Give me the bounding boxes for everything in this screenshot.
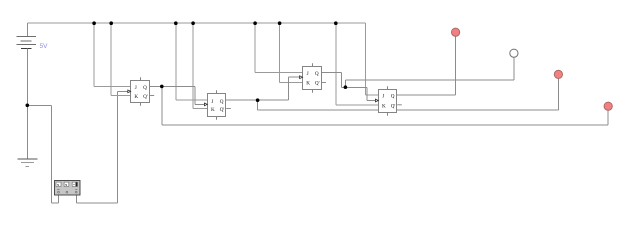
- wire rail to K3 vertical: [279, 23, 281, 82]
- pin U1 CLK arrow: [128, 90, 131, 93]
- svg-text:Q': Q': [220, 107, 225, 113]
- node Q3 junction: [344, 85, 348, 89]
- wire Q2 to CLK3 horizontal: [258, 99, 289, 101]
- wire Q2 probe riser: [557, 79, 559, 111]
- pin U2 preset stub: [216, 90, 218, 93]
- wire rail to K4 horizontal: [336, 104, 379, 106]
- wire Q3 probe riser: [513, 57, 515, 79]
- node battery negative junction: [26, 104, 30, 108]
- wire rail to J1 horizontal: [94, 85, 131, 87]
- wire Q4 probe riser: [455, 36, 457, 95]
- pin U2 clear stub: [216, 117, 218, 120]
- wire Q4 out: [397, 94, 455, 96]
- svg-text:K: K: [382, 103, 386, 109]
- svg-text:K: K: [211, 107, 215, 113]
- node rail K4 tap: [334, 21, 338, 25]
- wire Q2 out: [226, 99, 257, 101]
- wire rail to K3 horizontal: [280, 82, 303, 84]
- wire rail to J3 horizontal: [255, 71, 303, 73]
- pin U4 CLK arrow: [375, 99, 378, 102]
- pin clock source left: [57, 195, 59, 203]
- wire Q1 to CLK2 horizontal: [162, 85, 195, 87]
- battery V1: [16, 37, 36, 49]
- wire rail corner to J4 horizontal: [366, 94, 379, 96]
- svg-text:J: J: [382, 94, 384, 100]
- wire rail to K2 horizontal: [193, 108, 207, 110]
- pin U2 Q' stub: [226, 108, 231, 110]
- pin U3 Q' stub: [321, 82, 326, 84]
- wire clock output bottom run: [77, 202, 118, 204]
- svg-text:J: J: [307, 71, 309, 77]
- pin U3 clear stub: [312, 90, 314, 93]
- node rail J3 tap: [253, 21, 257, 25]
- probe X1 red: [452, 28, 460, 36]
- wire Q3 probe lift: [344, 80, 346, 88]
- wire clock output riser: [116, 91, 118, 202]
- wire to clock left pin: [52, 202, 59, 204]
- wire Q1 probe long run: [162, 124, 608, 126]
- probe X3 red: [554, 70, 562, 78]
- node rail K1 tap: [109, 21, 113, 25]
- wire Q2 probe long run: [258, 109, 559, 111]
- svg-text:J: J: [211, 99, 213, 105]
- wire rail to J2 horizontal: [176, 99, 208, 101]
- op-amp U3 JK flip-flop: [300, 63, 326, 92]
- pin U1 preset stub: [140, 77, 142, 80]
- wire negative junction to clock, horizontal: [27, 104, 51, 106]
- svg-text:Q: Q: [143, 85, 147, 91]
- wire rail to K4 vertical: [335, 23, 337, 105]
- wire rail to K2 vertical: [192, 23, 194, 108]
- wire rail to J1 vertical: [93, 23, 95, 86]
- svg-text:Q': Q': [143, 94, 148, 100]
- pin U4 Q' stub: [397, 104, 402, 106]
- pin clock source right: [76, 195, 78, 203]
- wire Q2 probe dropper: [257, 100, 259, 110]
- wire rail to J3 vertical: [254, 23, 256, 72]
- wire Q1 probe dropper: [161, 86, 163, 124]
- svg-text:Q: Q: [391, 94, 395, 100]
- pin U3 CLK arrow: [300, 76, 303, 79]
- wire rail to K1 vertical: [110, 23, 112, 95]
- wire Q2 to CLK3 riser: [288, 77, 290, 100]
- op-amp U1 JK flip-flop: [128, 77, 154, 105]
- wire rail to K1 horizontal: [111, 95, 131, 97]
- svg-text:K: K: [134, 94, 138, 100]
- pin U4 preset stub: [387, 86, 389, 89]
- wire Q3 corner down: [341, 72, 343, 87]
- node rail J2 tap: [174, 21, 178, 25]
- wire battery positive to rail: [26, 23, 28, 36]
- svg-text:K: K: [306, 80, 310, 86]
- node rail K2 tap: [191, 21, 195, 25]
- pin U1 Q' stub: [150, 95, 155, 97]
- node rail J1 tap: [92, 21, 96, 25]
- svg-text:Q': Q': [315, 80, 320, 86]
- wire rail to J2 vertical: [175, 23, 177, 100]
- wire Q3 out: [321, 71, 341, 73]
- node Q1 junction: [160, 85, 164, 89]
- wire battery negative down to ground: [26, 49, 28, 160]
- op-amp U2 JK flip-flop: [204, 90, 230, 119]
- wire clock to U1 CLK: [117, 90, 128, 92]
- node rail K3 tap: [278, 21, 282, 25]
- node Q2 junction: [256, 98, 260, 102]
- wire Q3 to CLK4 dropper: [366, 87, 368, 100]
- clock source CLK1: [55, 181, 81, 196]
- wire 5V power rail: [27, 22, 365, 24]
- pin U1 clear stub: [140, 103, 142, 106]
- wire rail corner to J4 vertical: [365, 23, 367, 95]
- probe X4 red: [604, 102, 612, 110]
- wire Q1 probe riser: [607, 110, 609, 124]
- wire Q3 to CLK4 horizontal: [345, 86, 367, 88]
- wire Q1 out: [150, 85, 162, 87]
- pin U2 CLK arrow: [204, 103, 207, 106]
- ground: [17, 159, 37, 166]
- svg-text:Q: Q: [220, 99, 224, 105]
- op-amp U4 JK flip-flop: [375, 86, 401, 115]
- svg-text:J: J: [135, 85, 137, 91]
- wire Q1 to CLK2 dropper: [194, 86, 196, 104]
- pin U3 preset stub: [312, 63, 314, 66]
- svg-text:5V: 5V: [40, 43, 49, 50]
- pin U4 clear stub: [387, 113, 389, 116]
- wire Q3 corner right: [342, 86, 346, 88]
- wire Q1 to CLK2 entry: [195, 103, 205, 105]
- wire negative junction to clock, vertical: [51, 105, 53, 203]
- wire Q2 to CLK3 entry: [289, 76, 300, 78]
- svg-text:Q': Q': [391, 103, 396, 109]
- wire Q3 to CLK4 entry: [367, 100, 376, 102]
- probe X2 hollow: [510, 49, 518, 57]
- svg-text:Q: Q: [315, 71, 319, 77]
- wire Q3 probe long run: [345, 79, 514, 81]
